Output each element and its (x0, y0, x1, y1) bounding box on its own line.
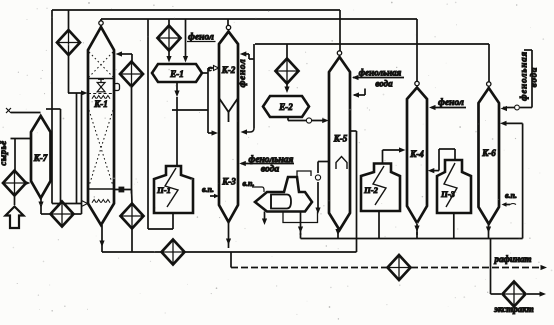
svg-text:К-2: К-2 (221, 65, 236, 75)
svg-text:К-5: К-5 (333, 134, 348, 144)
svg-text:фенольная: фенольная (249, 154, 294, 165)
svg-text:фенольная: фенольная (519, 51, 529, 101)
svg-text:фенол: фенол (438, 97, 464, 108)
svg-text:сырьё: сырьё (0, 140, 8, 165)
svg-text:К-6: К-6 (481, 148, 496, 158)
svg-text:К-3: К-3 (221, 177, 236, 187)
svg-text:с: с (208, 64, 212, 73)
svg-text:вода: вода (529, 67, 539, 87)
svg-text:П-2: П-2 (363, 185, 378, 195)
svg-text:Е-2: Е-2 (278, 102, 293, 112)
svg-text:рафинат: рафинат (494, 254, 532, 264)
svg-text:фенольная: фенольная (359, 68, 402, 78)
svg-text:вода: вода (375, 79, 393, 89)
svg-text:П-1: П-1 (156, 185, 171, 195)
svg-text:в.п.: в.п. (202, 185, 214, 194)
svg-text:К-7: К-7 (33, 153, 48, 163)
svg-text:экстракт: экстракт (493, 304, 533, 314)
svg-text:П-3: П-3 (440, 189, 455, 199)
svg-text:Е-1: Е-1 (169, 69, 184, 79)
svg-text:в.п.: в.п. (505, 191, 517, 200)
svg-text:вода: вода (261, 164, 279, 175)
svg-text:фенол: фенол (237, 59, 248, 88)
svg-text:К-1: К-1 (93, 99, 108, 109)
svg-text:К-4: К-4 (409, 149, 424, 159)
